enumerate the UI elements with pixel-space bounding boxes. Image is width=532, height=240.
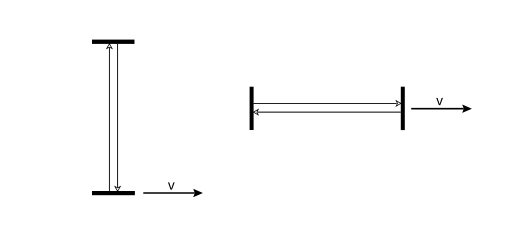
downward light ray line [117,44,119,187]
label v (right clock) [436,98,443,105]
velocity arrow shaft (right clock) [411,108,463,110]
upward open arrowhead [107,44,112,49]
rightward open arrowhead [396,101,401,106]
velocity arrow filled head (left clock) [193,189,203,197]
velocity arrow shaft (left clock) [143,192,194,194]
label v (left clock) [168,182,175,189]
velocity arrow filled head (right clock) [462,105,472,113]
bottom mirror bar (left light clock) [92,191,135,195]
rightward light ray line [254,102,397,104]
top mirror bar (left light clock) [92,40,135,44]
leftward open arrowhead [254,109,259,114]
right mirror bar (right light clock) [401,87,405,130]
upward light ray line [108,48,110,191]
leftward light ray line [258,111,401,113]
downward open arrowhead [115,187,120,192]
left mirror bar (right light clock) [250,87,254,130]
